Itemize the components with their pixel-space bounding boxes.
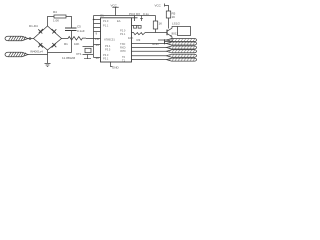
svg-text:VCC: VCC	[111, 4, 118, 8]
svg-text:11.0592M: 11.0592M	[62, 56, 76, 60]
svg-text:P3.1: P3.1	[103, 57, 109, 61]
svg-text:10K: 10K	[74, 42, 79, 46]
svg-text:P3.5: P3.5	[105, 48, 111, 52]
svg-text:P2.1: P2.1	[120, 32, 126, 36]
svg-text:IN4001x4: IN4001x4	[30, 50, 43, 54]
svg-text:P0.0 DX: P0.0 DX	[129, 12, 140, 16]
svg-text:P3.4: P3.4	[105, 44, 111, 48]
svg-text:1K: 1K	[172, 15, 176, 19]
svg-text:EA: EA	[117, 19, 121, 23]
svg-text:9013: 9013	[172, 32, 179, 36]
svg-text:0.1u: 0.1u	[143, 12, 149, 16]
svg-text:R1: R1	[64, 42, 68, 46]
svg-text:P1.1: P1.1	[103, 24, 109, 28]
svg-text:19: 19	[96, 43, 100, 47]
svg-text:RXD: RXD	[120, 46, 126, 50]
svg-text:P1.0: P1.0	[103, 19, 109, 23]
svg-text:1K: 1K	[159, 22, 163, 26]
svg-text:XT1: XT1	[76, 52, 82, 56]
svg-text:INT0: INT0	[120, 49, 126, 53]
svg-text:18: 18	[96, 56, 100, 60]
svg-text:C5: C5	[77, 25, 81, 29]
svg-text:AT89C51: AT89C51	[104, 38, 115, 42]
svg-text:P3.0: P3.0	[103, 53, 109, 57]
svg-text:C1: C1	[100, 14, 104, 18]
svg-text:R4: R4	[53, 10, 57, 14]
svg-text:D1-D4: D1-D4	[29, 24, 38, 28]
svg-text:0.1uF: 0.1uF	[77, 29, 85, 33]
svg-text:VCC: VCC	[155, 4, 162, 8]
svg-text:R3: R3	[137, 38, 141, 42]
svg-text:FB: FB	[95, 37, 99, 41]
svg-text:GND: GND	[112, 66, 120, 70]
svg-text:LS1/2: LS1/2	[172, 22, 180, 26]
svg-text:TXD: TXD	[120, 42, 125, 46]
svg-text:10K: 10K	[128, 36, 133, 40]
svg-text:GND: GND	[152, 42, 160, 46]
svg-text:1.0K: 1.0K	[53, 19, 59, 23]
